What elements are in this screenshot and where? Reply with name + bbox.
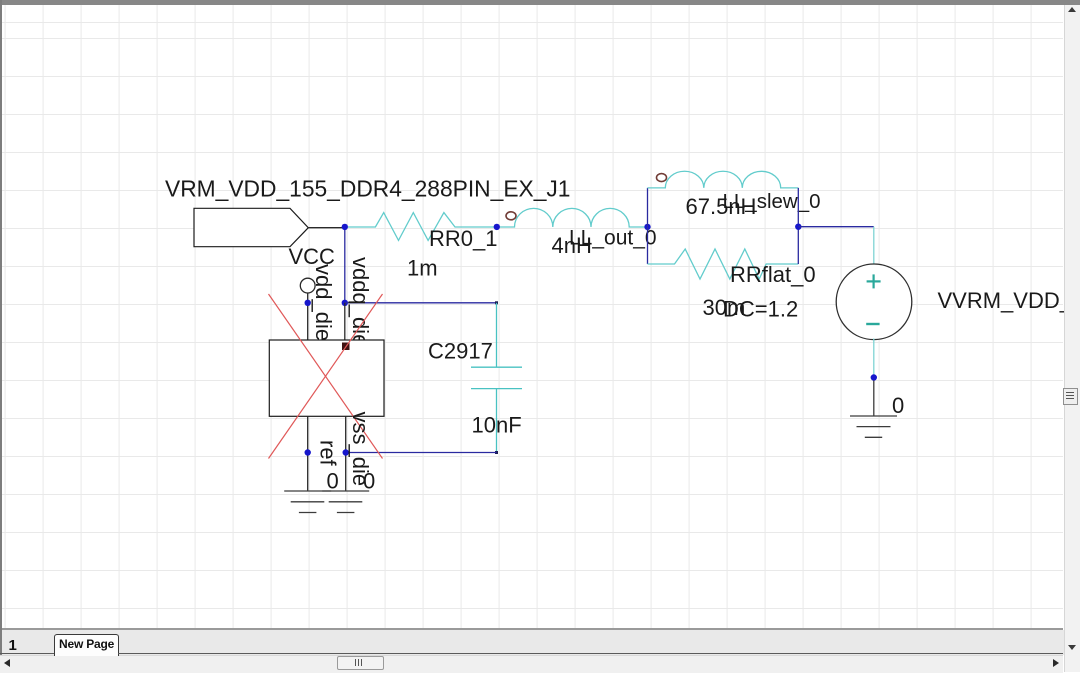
horizontal scrollbar row (0, 655, 1063, 673)
hscroll thumb (337, 656, 384, 670)
wire port to node (308, 227, 345, 229)
tab row (2, 630, 1080, 655)
svg-text:ref: ref (316, 440, 341, 467)
window left border (0, 0, 2, 672)
ref pin wire (307, 416, 309, 491)
vdd_die pin wire (307, 293, 309, 340)
ground pin right (873, 381, 875, 416)
inductor LL_slew_0 (648, 171, 799, 188)
inductor LL_out_0 (500, 208, 648, 227)
wire parallel left vertical (647, 188, 649, 264)
window top border (0, 0, 1080, 5)
ground left B (322, 491, 369, 513)
svg-text:10nF: 10nF (472, 413, 522, 438)
wire node to source (798, 226, 874, 228)
ground left A (284, 491, 331, 513)
wire node down to vddq (344, 228, 346, 303)
corner marker cap top (495, 301, 498, 304)
node parallel-right (795, 224, 801, 230)
node ref (305, 449, 311, 455)
deactivated red X (269, 294, 383, 459)
VCC pin circle (300, 278, 315, 293)
svg-text:VVRM_VDD_155_DDR4: VVRM_VDD_155_DDR4 (938, 288, 1080, 313)
wire parallel right vertical (797, 188, 799, 264)
hscroll right arrow (1053, 659, 1059, 667)
svg-text:LL_out_0: LL_out_0 (569, 227, 657, 250)
hscroll left arrow (4, 659, 10, 667)
hscroll thumb grip (355, 659, 363, 666)
vss pin wire (345, 416, 347, 491)
wire vddq to cap (345, 302, 497, 304)
node parallel-left (644, 224, 650, 230)
pin-1 marker of LL_out_0 (506, 212, 516, 220)
svg-text:vddq_die: vddq_die (348, 257, 373, 346)
ground right (850, 416, 897, 437)
capacitor C2917 (471, 303, 522, 453)
svg-text:0: 0 (327, 469, 339, 494)
vertical scrollbar thumb (1063, 388, 1078, 405)
voltage source VVRM_VDD circle (836, 264, 912, 340)
node main (342, 224, 348, 230)
svg-text:vdd_die: vdd_die (311, 264, 336, 341)
vscroll up arrow (1068, 7, 1076, 12)
resistor RR0_1 (348, 213, 494, 241)
source bottom pin (873, 339, 875, 375)
wire cap bottom to vss (346, 452, 497, 454)
tab underline left (0, 653, 54, 654)
node vdd_die (305, 300, 311, 306)
page number 1 (9, 637, 17, 654)
pin marker on box (342, 343, 350, 351)
vscroll thumb grip (1066, 392, 1074, 401)
vddq_die pin wire (344, 303, 346, 340)
source top pin (873, 227, 875, 264)
node after RR0_1 (494, 224, 500, 230)
svg-text:1m: 1m (407, 256, 438, 281)
corner marker cap bottom (495, 451, 498, 454)
New Page tab label (59, 637, 114, 651)
plus sign (867, 274, 881, 288)
New Page tab (54, 634, 119, 656)
svg-text:RRflat_0: RRflat_0 (730, 262, 816, 287)
svg-text:LL_slew_0: LL_slew_0 (723, 190, 821, 213)
vertical scrollbar track (1064, 5, 1080, 672)
minus sign (866, 323, 879, 325)
svg-text:DC=1.2: DC=1.2 (723, 297, 798, 322)
svg-text:RR0_1: RR0_1 (429, 226, 497, 251)
node vddq (342, 300, 348, 306)
node source-ground (871, 374, 877, 380)
svg-text:VRM_VDD_155_DDR4_288PIN_EX_J1: VRM_VDD_155_DDR4_288PIN_EX_J1 (165, 176, 571, 202)
node vss (343, 449, 349, 455)
canvas bottom border (2, 628, 1063, 630)
port symbol VRM_VDD_155_DDR4_288PIN_EX_J1 (194, 208, 308, 246)
die model box (269, 340, 384, 416)
svg-text:0: 0 (363, 469, 375, 494)
resistor RRflat_0 (648, 249, 799, 279)
svg-text:C2917: C2917 (428, 339, 493, 364)
pin-1 marker of LL_slew_0 (657, 174, 667, 182)
svg-text:0: 0 (892, 393, 904, 418)
tab underline right (118, 653, 1063, 654)
vscroll down arrow (1068, 645, 1076, 650)
